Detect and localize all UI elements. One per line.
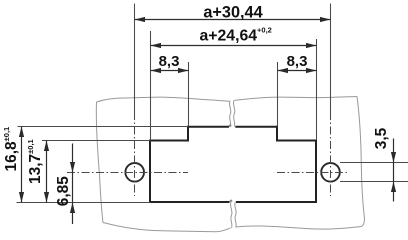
- extension line hole top tangent (3,5): [340, 162, 408, 164]
- dimension 3,5: [393, 139, 395, 202]
- extension line step right: [277, 62, 279, 127]
- cutout raised top edge: [187, 126, 278, 128]
- dimension 8,3 left: [151, 70, 189, 72]
- arrows 3,5 (outside): [391, 152, 396, 163]
- extension line step left: [188, 62, 190, 127]
- dimension a+24,64: [151, 45, 317, 47]
- cutout bottom edge: [149, 201, 317, 203]
- svg-text:a+24,64+0,2: a+24,64+0,2: [200, 26, 272, 45]
- svg-text:16,8±0,1: 16,8±0,1: [2, 127, 20, 172]
- svg-text:3,5: 3,5: [373, 127, 390, 149]
- arrows 6,85 (outside): [70, 162, 75, 173]
- cutout thick outline: [149, 126, 317, 203]
- arrows 8,3 left: [151, 68, 162, 73]
- centerline horizontal right hole: [277, 172, 347, 174]
- arrows a+24,64: [151, 43, 162, 48]
- extension/center line vertical left hole: [17, 4, 408, 203]
- break notch on bottom edge: [230, 200, 232, 202]
- arrows a+30,44: [135, 17, 146, 22]
- dimension 6,85: [72, 144, 74, 225]
- svg-text:6,85: 6,85: [55, 176, 72, 207]
- panel outline (broken part, wavy thin lines): [96, 97, 364, 232]
- extension line hole bottom tangent (3,5): [340, 181, 408, 183]
- cutout top-left edge: [149, 140, 188, 142]
- dimension 13,7: [46, 141, 48, 203]
- dimension 16,8: [21, 127, 23, 203]
- hole right (circle): [321, 163, 340, 182]
- panel bottom edge: [103, 223, 231, 232]
- panel top edge: [97, 97, 230, 102]
- break line lower pair: [231, 203, 232, 229]
- break line upper pair: [229, 101, 230, 127]
- cutout step right: [276, 126, 278, 142]
- centerline horizontal left hole: [67, 172, 188, 174]
- panel right edge: [357, 97, 365, 220]
- svg-text:a+30,44: a+30,44: [203, 4, 262, 22]
- dimension 8,3 right: [278, 70, 317, 72]
- hole left (circle): [125, 163, 144, 182]
- extension line raised top (16,8 ref): [18, 126, 189, 128]
- extension line cutout bottom: [17, 202, 151, 204]
- arrows 13,7: [44, 141, 49, 152]
- extension line cutout left: [150, 31, 152, 140]
- cutout left edge: [149, 140, 151, 204]
- extension line outer top (13,7 ref): [42, 140, 151, 142]
- arrows 16,8: [19, 127, 24, 138]
- cutout right edge: [315, 140, 317, 204]
- svg-text:8,3: 8,3: [287, 53, 308, 70]
- extension/center line vertical right hole: [330, 4, 332, 113]
- svg-text:13,7±0,1: 13,7±0,1: [26, 139, 44, 184]
- arrows 8,3 right: [278, 68, 289, 73]
- dimension a+30,44: [22, 20, 394, 225]
- extension line cutout right: [316, 39, 318, 140]
- break notch on raised top: [229, 125, 231, 127]
- panel left edge: [96, 102, 103, 223]
- svg-text:8,3: 8,3: [159, 53, 180, 70]
- cutout step left: [187, 126, 189, 142]
- cutout top-right edge: [276, 140, 317, 142]
